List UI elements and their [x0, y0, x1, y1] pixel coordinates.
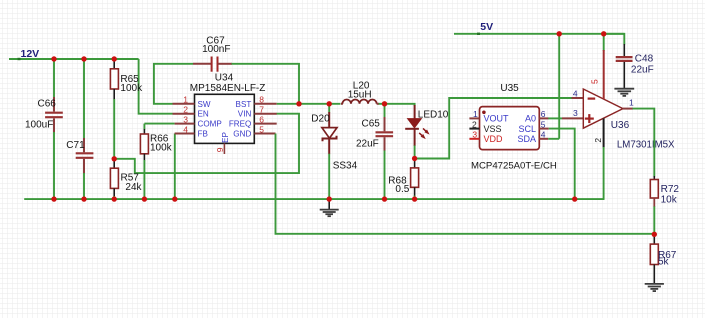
svg-text:1: 1 [629, 97, 634, 107]
junction D20 cathode on ground rail [327, 196, 332, 201]
diode D20 SS34 [311, 104, 357, 199]
wire node A to FB net jog [114, 114, 299, 173]
svg-text:VOUT: VOUT [484, 114, 510, 124]
junction R65 top on 12V rail [112, 56, 117, 61]
svg-text:6: 6 [541, 109, 546, 119]
wire SW loop to C67 [154, 64, 193, 104]
U34 pin 5 GND [254, 133, 275, 135]
wire A0 to 5V drop [548, 117, 562, 119]
svg-text:C48: C48 [635, 54, 654, 65]
ground symbol below C48 [614, 89, 634, 96]
svg-text:100uF: 100uF [25, 120, 53, 131]
junction R57 bottom on ground rail [112, 196, 117, 201]
wire FB drop to ground rail [174, 134, 176, 200]
capacitor C67 100nF [193, 36, 232, 72]
svg-text:24k: 24k [125, 182, 142, 193]
junction U36 pin5 on 5V rail [601, 31, 606, 36]
svg-text:9: 9 [215, 147, 225, 152]
svg-text:10k: 10k [661, 195, 678, 206]
LED light arrows [423, 128, 427, 132]
svg-text:SDA: SDA [517, 134, 536, 144]
resistor R67 [650, 234, 676, 283]
wire 12V rail [9, 58, 139, 60]
svg-text:EN: EN [198, 110, 209, 119]
junction C71 bottom on ground rail [81, 196, 86, 201]
svg-text:LM7301IM5X: LM7301IM5X [617, 140, 675, 151]
U35 pin 3 VDD [469, 138, 479, 140]
wire SDA to 5V drop [548, 138, 559, 140]
U35 pin 4 SDA [539, 138, 548, 140]
U34 pin 6 FREQ [254, 123, 276, 125]
junction node A R65/R57 divider [112, 156, 117, 161]
svg-text:12V: 12V [21, 48, 40, 60]
svg-text:BST: BST [236, 100, 252, 109]
svg-text:FREQ: FREQ [229, 120, 251, 129]
U35 pin 5 SCL [539, 128, 549, 130]
svg-text:100k: 100k [150, 143, 173, 154]
svg-text:5: 5 [589, 79, 599, 84]
svg-text:FB: FB [198, 130, 208, 139]
svg-text:4: 4 [183, 124, 188, 134]
U36 minus sign [588, 97, 596, 99]
svg-text:5k: 5k [658, 257, 670, 268]
junction C67 tap on SW node [296, 101, 301, 106]
svg-text:MCP4725A0T-E/CH: MCP4725A0T-E/CH [471, 160, 557, 171]
U34 pin 4 FB [175, 133, 195, 135]
wire L20 to LED10 [385, 104, 415, 106]
U34 pin 7 VIN [254, 113, 276, 115]
svg-text:4: 4 [573, 89, 578, 99]
wire BST/SW node to L20 [277, 103, 341, 105]
wire ground rail [24, 198, 604, 200]
svg-text:U36: U36 [611, 120, 630, 131]
svg-text:GND: GND [233, 130, 251, 139]
svg-text:3: 3 [183, 114, 188, 124]
node 5V label [477, 33, 480, 35]
svg-text:3: 3 [573, 108, 578, 118]
junction FB drop on ground rail [172, 196, 177, 201]
svg-text:D20: D20 [311, 113, 330, 124]
junction C65 bottom on ground rail [382, 196, 387, 201]
ground symbol below R67 [645, 284, 664, 291]
svg-text:5: 5 [541, 120, 546, 130]
svg-text:VIN: VIN [238, 110, 252, 119]
svg-text:15uH: 15uH [348, 90, 372, 101]
U36 triangle body [583, 89, 623, 128]
junction C65 top on SW output node [382, 101, 387, 106]
junction LED10 cathode / R68 / sense [412, 156, 417, 161]
wire EN riser from 12V rail [139, 59, 173, 114]
svg-text:22uF: 22uF [356, 138, 379, 149]
svg-text:SCL: SCL [518, 124, 536, 134]
junction R66 bottom on ground rail [142, 196, 147, 201]
U34 pin 3 COMP [175, 123, 195, 125]
U36 pin 4 minus input stub [572, 97, 584, 99]
svg-text:2: 2 [593, 138, 603, 143]
svg-text:VSS: VSS [484, 124, 502, 134]
wire 5V drop to SDA [558, 34, 560, 139]
junction C66 bottom on ground rail [51, 196, 56, 201]
op-amp U34 MP1584EN-LF-Z box [173, 73, 277, 155]
svg-text:5V: 5V [480, 21, 493, 33]
svg-text:SS34: SS34 [333, 160, 358, 171]
resistor R65 [110, 59, 143, 159]
resistor R66 [140, 124, 172, 200]
U34 pin 8 BST [254, 103, 276, 105]
svg-text:4: 4 [541, 130, 546, 140]
U34 pin 9 EP [223, 143, 225, 154]
U35 pin 1 VOUT [469, 117, 479, 119]
svg-text:EP: EP [221, 132, 230, 143]
junction C71 top on 12V rail [81, 56, 86, 61]
svg-text:U34: U34 [215, 73, 234, 84]
svg-text:6: 6 [259, 114, 264, 124]
junction C66 top on 12V rail [51, 56, 56, 61]
svg-text:2: 2 [183, 105, 188, 115]
wire U34 GND pin5 to bottom-right rail [276, 134, 655, 234]
U34 pin 2 EN [173, 113, 195, 115]
svg-text:100k: 100k [120, 83, 143, 94]
LED LED10 [405, 105, 449, 159]
node 12V label [18, 58, 21, 60]
svg-text:8: 8 [259, 95, 264, 105]
svg-text:A0: A0 [525, 114, 536, 124]
svg-text:C65: C65 [362, 119, 381, 130]
svg-text:C71: C71 [66, 140, 85, 151]
svg-text:C66: C66 [38, 99, 57, 110]
wire SCL to ground rail [549, 129, 575, 200]
svg-text:U35: U35 [500, 83, 519, 94]
junction D20 anode on SW node [327, 101, 332, 106]
junction SCL drop on ground rail [572, 196, 577, 201]
capacitor C65 [356, 104, 393, 199]
capacitor C48 [604, 34, 654, 88]
wire C67 right to BST node [232, 64, 300, 104]
resistor R57 [110, 159, 142, 199]
svg-text:22uF: 22uF [631, 65, 654, 76]
U35 pin 6 A0 [539, 117, 548, 119]
junction R72/R67 node [652, 232, 657, 237]
op-amp U36 LM7301IM5X [562, 34, 675, 199]
U36 pin 2 negative supply [603, 118, 605, 147]
svg-text:7: 7 [259, 105, 264, 115]
svg-text:LED10: LED10 [418, 109, 449, 120]
U36 pin 3 plus input stub [562, 117, 583, 119]
ground symbol at main rail [320, 199, 339, 216]
wire 5V rail [454, 33, 624, 35]
U36 plus sign [585, 117, 594, 119]
inductor L20 15uH [341, 81, 385, 104]
op-amp U35 MCP4725 box [469, 83, 557, 171]
svg-text:VDD: VDD [484, 134, 504, 144]
svg-text:0.5: 0.5 [395, 184, 409, 195]
U36 pin 1 output stub [623, 108, 633, 110]
U36 pin 5 positive supply [603, 34, 605, 51]
resistor R72 [650, 176, 679, 234]
wire LED sense to op-amp minus input [415, 98, 572, 159]
svg-text:1: 1 [473, 109, 478, 119]
wire COMP to R66 [144, 123, 174, 125]
svg-text:MP1584EN-LF-Z: MP1584EN-LF-Z [190, 83, 266, 94]
junction R68 bottom on ground rail [412, 196, 417, 201]
resistor R68 [388, 159, 418, 200]
junction A0/SDA drop on 5V rail [557, 31, 562, 36]
svg-text:R72: R72 [661, 184, 680, 195]
capacitor C71 [66, 59, 93, 199]
svg-text:5: 5 [259, 124, 264, 134]
svg-text:100nF: 100nF [202, 44, 230, 55]
svg-text:SW: SW [198, 100, 211, 109]
wire U36 output to R72 [633, 109, 655, 177]
capacitor C66 [25, 59, 63, 199]
U35 pin 2 VSS [469, 128, 479, 130]
svg-text:COMP: COMP [198, 120, 222, 129]
svg-text:1: 1 [183, 95, 188, 105]
U34 pin 1 SW [173, 103, 195, 105]
svg-text:2: 2 [472, 120, 477, 130]
svg-text:3: 3 [472, 130, 477, 140]
